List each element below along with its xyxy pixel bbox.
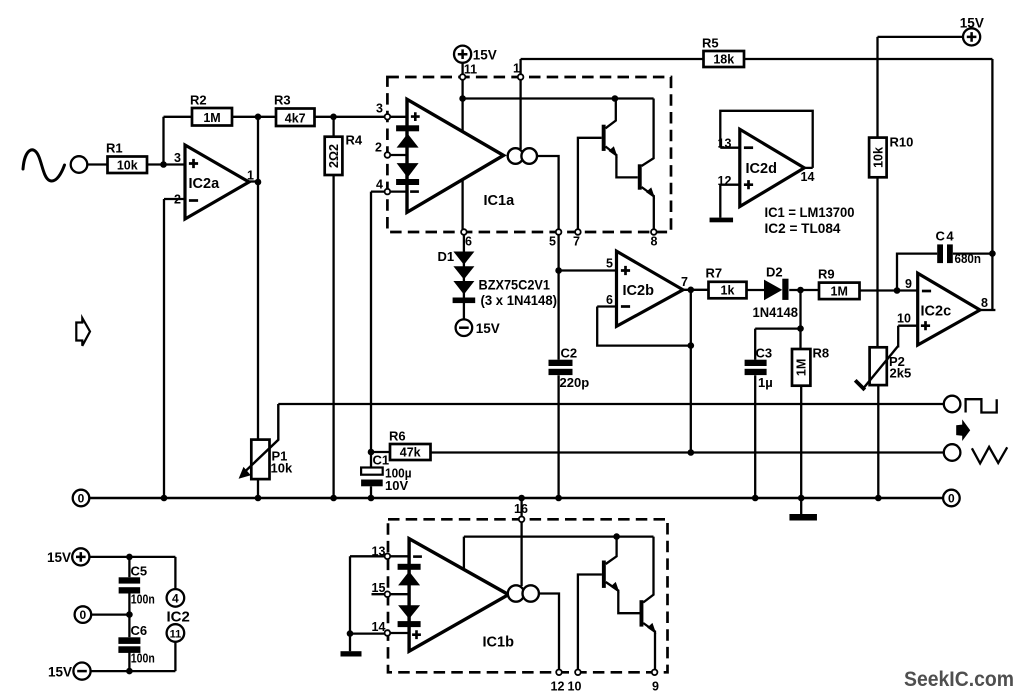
svg-text:1: 1 bbox=[513, 62, 520, 76]
svg-text:1M: 1M bbox=[795, 359, 809, 376]
svg-text:3: 3 bbox=[376, 102, 383, 116]
svg-text:47k: 47k bbox=[400, 446, 421, 460]
svg-text:10V: 10V bbox=[385, 478, 408, 493]
svg-text:15V: 15V bbox=[960, 15, 984, 30]
svg-text:15V: 15V bbox=[476, 321, 500, 336]
svg-text:13: 13 bbox=[718, 136, 732, 150]
svg-text:1N4148: 1N4148 bbox=[753, 305, 799, 320]
svg-text:1µ: 1µ bbox=[758, 375, 773, 390]
svg-text:11: 11 bbox=[170, 629, 182, 641]
svg-text:7: 7 bbox=[573, 234, 580, 248]
svg-text:IC2 = TL084: IC2 = TL084 bbox=[765, 221, 842, 236]
svg-text:0: 0 bbox=[80, 608, 87, 622]
svg-text:R8: R8 bbox=[813, 346, 830, 361]
svg-text:12: 12 bbox=[718, 174, 732, 188]
svg-text:9: 9 bbox=[652, 679, 659, 693]
svg-text:R2: R2 bbox=[190, 92, 207, 107]
svg-text:10: 10 bbox=[568, 679, 582, 693]
svg-text:R10: R10 bbox=[890, 135, 914, 150]
svg-text:100n: 100n bbox=[131, 592, 155, 607]
svg-text:BZX75C2V1: BZX75C2V1 bbox=[479, 277, 551, 292]
svg-text:C2: C2 bbox=[561, 345, 578, 360]
svg-text:7: 7 bbox=[681, 275, 688, 289]
svg-text:IC2a: IC2a bbox=[189, 176, 221, 192]
svg-text:5: 5 bbox=[549, 234, 556, 248]
svg-text:R4: R4 bbox=[346, 133, 363, 148]
svg-text:2: 2 bbox=[174, 193, 181, 207]
svg-text:IC2: IC2 bbox=[167, 608, 190, 625]
svg-text:2k5: 2k5 bbox=[890, 366, 912, 381]
svg-text:6: 6 bbox=[606, 293, 613, 307]
svg-text:C5: C5 bbox=[131, 563, 148, 578]
svg-text:15V: 15V bbox=[48, 664, 72, 679]
svg-text:10k: 10k bbox=[871, 147, 885, 168]
svg-text:12: 12 bbox=[551, 679, 565, 693]
svg-text:11: 11 bbox=[464, 63, 477, 77]
svg-text:13: 13 bbox=[372, 544, 386, 558]
svg-text:10: 10 bbox=[897, 311, 911, 325]
svg-text:R7: R7 bbox=[706, 266, 723, 281]
svg-text:D1: D1 bbox=[438, 249, 455, 264]
svg-text:15V: 15V bbox=[473, 47, 497, 62]
svg-text:1M: 1M bbox=[831, 285, 848, 299]
svg-text:10k: 10k bbox=[117, 159, 138, 173]
svg-text:4k7: 4k7 bbox=[285, 111, 306, 125]
svg-text:4: 4 bbox=[376, 178, 383, 192]
svg-text:14: 14 bbox=[801, 170, 815, 184]
svg-text:16: 16 bbox=[514, 502, 528, 516]
svg-text:IC1 = LM13700: IC1 = LM13700 bbox=[765, 205, 855, 220]
svg-text:1: 1 bbox=[247, 169, 254, 183]
svg-text:IC1a: IC1a bbox=[484, 193, 516, 209]
svg-text:2Ω2: 2Ω2 bbox=[327, 144, 341, 168]
svg-text:IC2b: IC2b bbox=[623, 283, 655, 299]
svg-text:R1: R1 bbox=[106, 141, 123, 156]
svg-text:100n: 100n bbox=[131, 650, 155, 665]
svg-text:3: 3 bbox=[174, 151, 181, 165]
svg-text:0: 0 bbox=[78, 492, 85, 506]
svg-text:R3: R3 bbox=[274, 93, 291, 108]
svg-text:D2: D2 bbox=[766, 264, 783, 279]
svg-text:680n: 680n bbox=[955, 251, 982, 266]
svg-text:C6: C6 bbox=[131, 623, 148, 638]
svg-text:R5: R5 bbox=[702, 36, 719, 51]
svg-text:C3: C3 bbox=[756, 345, 773, 360]
svg-text:5: 5 bbox=[606, 257, 613, 271]
svg-text:15V: 15V bbox=[47, 550, 71, 565]
svg-text:1k: 1k bbox=[721, 284, 735, 298]
svg-text:(3 x 1N4148): (3 x 1N4148) bbox=[481, 293, 558, 308]
svg-text:6: 6 bbox=[465, 235, 472, 249]
svg-text:14: 14 bbox=[372, 620, 386, 634]
svg-text:220p: 220p bbox=[560, 375, 590, 390]
svg-text:IC1b: IC1b bbox=[483, 634, 515, 650]
svg-text:R6: R6 bbox=[389, 429, 406, 444]
svg-text:2: 2 bbox=[375, 141, 382, 155]
svg-text:IC2c: IC2c bbox=[921, 303, 952, 319]
svg-text:18k: 18k bbox=[713, 53, 734, 67]
svg-text:0: 0 bbox=[948, 492, 955, 506]
svg-text:15: 15 bbox=[372, 581, 386, 595]
svg-text:8: 8 bbox=[651, 234, 658, 248]
svg-text:4: 4 bbox=[172, 592, 179, 606]
svg-text:SeekIC.com: SeekIC.com bbox=[904, 667, 1014, 691]
svg-text:8: 8 bbox=[981, 296, 988, 310]
svg-text:1M: 1M bbox=[203, 111, 220, 125]
svg-text:9: 9 bbox=[905, 277, 912, 291]
svg-text:10k: 10k bbox=[271, 460, 293, 475]
svg-text:IC2d: IC2d bbox=[746, 161, 777, 177]
svg-text:C4: C4 bbox=[936, 228, 956, 243]
svg-text:R9: R9 bbox=[818, 267, 835, 282]
